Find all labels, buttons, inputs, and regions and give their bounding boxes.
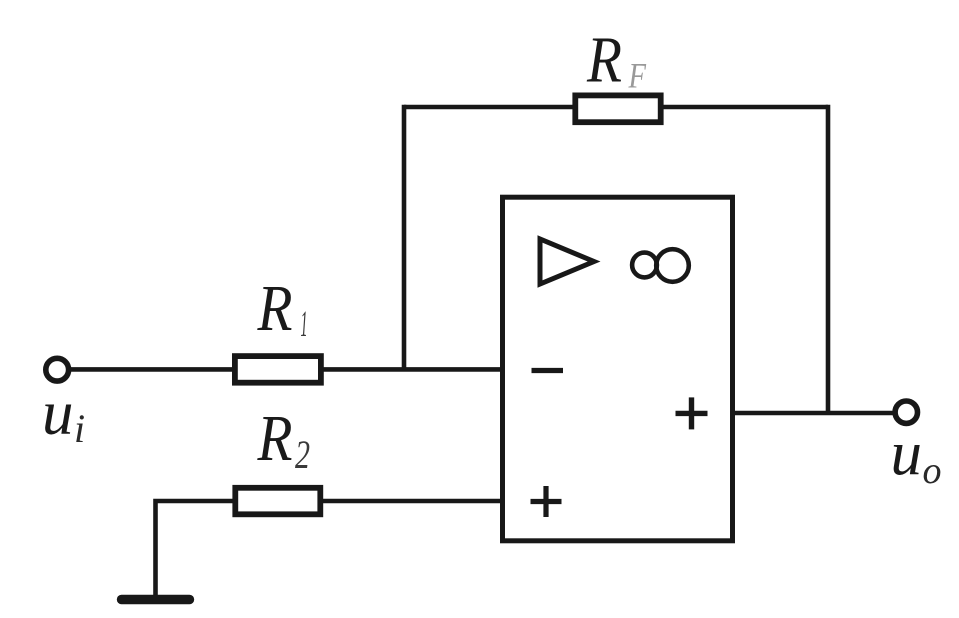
wire: feedback left vertical from RF line down to inverting node [402, 105, 407, 370]
resistor R2 [235, 488, 320, 515]
label uo [891, 419, 942, 493]
op-amp inverting input minus sign [532, 368, 564, 373]
resistor RF [575, 95, 660, 122]
svg-text:u: u [891, 419, 923, 489]
wire: R2 left horizontal to ground drop [156, 501, 503, 597]
label ui [42, 378, 85, 451]
svg-text:2: 2 [295, 432, 310, 477]
op-amp U1 box [503, 197, 733, 541]
label RF [586, 24, 647, 97]
op-amp infinity gain symbol [632, 253, 657, 278]
svg-text:F: F [628, 56, 647, 96]
label R1 [257, 272, 308, 345]
op-amp output plus sign [676, 397, 708, 429]
svg-text:1: 1 [301, 304, 308, 345]
wire: feedback top horizontal through RF [404, 105, 828, 110]
terminal uo [895, 401, 917, 423]
resistor R1 [235, 356, 321, 383]
svg-text:R: R [257, 402, 293, 475]
label R2 [257, 402, 310, 477]
svg-text:o: o [923, 450, 942, 492]
svg-text:R: R [586, 24, 622, 97]
op-amp triangle symbol [540, 239, 594, 284]
ground [122, 595, 190, 604]
svg-text:u: u [42, 378, 74, 448]
op-amp non-inverting input plus sign [531, 486, 562, 517]
terminal ui [46, 358, 69, 381]
wire: input line from ui terminal to op-amp inverting input [68, 367, 503, 372]
wire: output line from op-amp to uo terminal [733, 411, 896, 416]
svg-text:i: i [74, 406, 85, 451]
wire: feedback right vertical from RF line down to output line [826, 105, 831, 413]
svg-text:R: R [257, 272, 293, 345]
